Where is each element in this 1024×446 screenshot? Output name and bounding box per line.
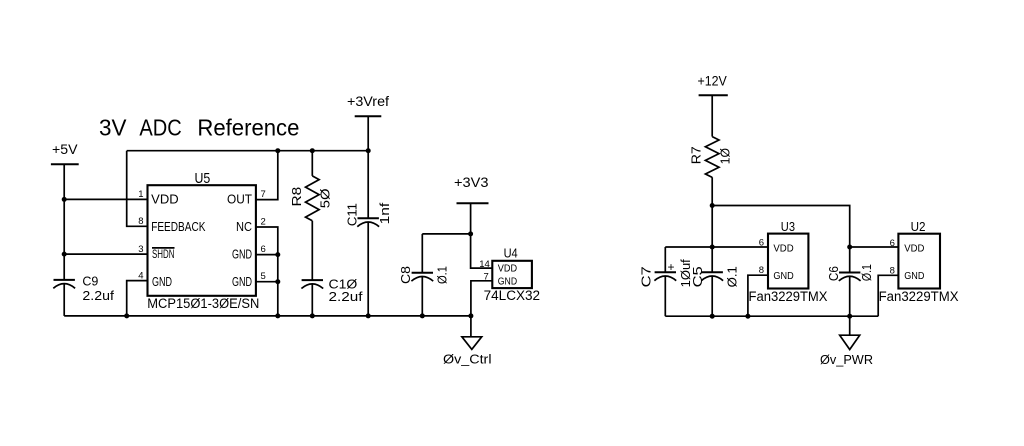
svg-text:Øv_PWR: Øv_PWR (820, 352, 873, 367)
svg-text:U4: U4 (504, 245, 518, 260)
wire R7 down (711, 177, 713, 272)
svg-text:C9: C9 (82, 274, 98, 288)
capacitor C5 (691, 266, 739, 316)
svg-text:74LCX32: 74LCX32 (484, 288, 540, 303)
svg-text:OUT: OUT (227, 193, 252, 207)
junction rail/U4 gnd (468, 313, 473, 318)
U3 value Fan3229TMX (749, 289, 828, 304)
svg-text:NC: NC (236, 220, 252, 234)
U5 pin number 2 (261, 216, 266, 227)
svg-text:+12V: +12V (698, 74, 727, 89)
junction top rail/+3Vref (366, 148, 371, 153)
junction pin6 (275, 252, 280, 257)
U4 pin label VDD (498, 262, 518, 274)
U5 pin label GND left (152, 275, 172, 289)
junction R7/branch (710, 203, 715, 208)
junction rail/C8 (420, 313, 425, 318)
svg-text:Fan3229TMX: Fan3229TMX (879, 289, 959, 304)
svg-text:1nf: 1nf (378, 202, 392, 224)
svg-text:Ø.1: Ø.1 (436, 266, 450, 284)
svg-text:2: 2 (261, 216, 266, 227)
junction rail/C11 (366, 313, 371, 318)
wire feedback (127, 151, 148, 227)
svg-text:R8: R8 (289, 187, 304, 207)
svg-text:Reference: Reference (197, 115, 299, 141)
svg-text:VDD: VDD (904, 243, 925, 255)
svg-text:VDD: VDD (773, 242, 794, 254)
svg-text:2.2uf: 2.2uf (82, 288, 114, 303)
U5 pin number 8 (138, 216, 143, 227)
svg-text:GND: GND (904, 270, 925, 282)
svg-text:C8: C8 (399, 266, 413, 284)
title 3V ADC Reference (99, 115, 299, 141)
svg-text:Fan3229TMX: Fan3229TMX (749, 289, 828, 304)
junction C7 row (710, 245, 715, 250)
power +5V (51, 142, 79, 164)
svg-text:MCP15Ø1-3ØE/SN: MCP15Ø1-3ØE/SN (147, 296, 259, 311)
svg-text:3: 3 (138, 244, 143, 255)
U5 pin number 5 (261, 271, 266, 282)
wire pin4 GND (127, 281, 148, 316)
svg-text:+: + (668, 260, 675, 274)
svg-text:3V: 3V (99, 115, 127, 141)
U4 pin label GND (498, 276, 518, 288)
svg-text:U2: U2 (911, 219, 926, 234)
U4 pin number 14 (479, 259, 490, 270)
U4 value 74LCX32 (484, 288, 540, 303)
U5 pin number 6 (261, 244, 266, 255)
svg-text:GND: GND (152, 275, 172, 289)
svg-text:GND: GND (232, 248, 252, 262)
svg-text:5Ø: 5Ø (318, 189, 333, 209)
wire top rail (127, 150, 369, 152)
wire bottom rail left (64, 315, 471, 317)
svg-text:C5: C5 (691, 266, 705, 287)
U2 value Fan3229TMX (879, 289, 959, 304)
junction +5V/SHDN (62, 252, 67, 257)
junction pin5 (275, 279, 280, 284)
junction C6/pin6 (847, 245, 852, 250)
svg-text:8: 8 (138, 216, 143, 227)
wire OUT to top rail (256, 151, 278, 200)
svg-text:+3V3: +3V3 (454, 175, 489, 190)
ground 0v_PWR (820, 316, 873, 367)
U3 pin number 8 (759, 265, 764, 276)
power +3Vref (347, 94, 389, 117)
svg-text:1: 1 (138, 189, 143, 200)
op-amp U2 body (898, 219, 940, 289)
U3 pin number 6 (759, 237, 764, 248)
svg-text:+5V: +5V (52, 142, 78, 157)
svg-text:2.2uf: 2.2uf (329, 289, 363, 304)
U5 pin number 3 (138, 244, 143, 255)
svg-text:C7: C7 (640, 266, 654, 287)
U4 pin number 7 (484, 271, 489, 282)
U3 pin label VDD (773, 242, 794, 254)
capacitor C9 (53, 274, 114, 303)
wire U2 pin6 (850, 246, 899, 248)
junction rail/NC (275, 313, 280, 318)
U5 pin number 4 (138, 270, 143, 281)
svg-text:Ø.1: Ø.1 (725, 266, 739, 287)
svg-text:+3Vref: +3Vref (347, 94, 389, 109)
power +3V3 (454, 175, 489, 204)
U5 pin label OUT (227, 193, 252, 207)
junction +5V/VDD (62, 197, 67, 202)
wire pin3 SHDN (64, 253, 147, 255)
U5 pin label FEEDBACK (151, 220, 206, 234)
U5 value MCP1501-30E/SN (147, 296, 259, 311)
wire C7 row (665, 246, 768, 248)
svg-text:C11: C11 (346, 203, 360, 226)
wire +3V3 stem to pin14 (471, 203, 493, 268)
U2 pin number 6 (890, 238, 895, 249)
svg-text:7: 7 (261, 189, 266, 200)
junction top rail/R8 (310, 148, 315, 153)
svg-text:GND: GND (232, 275, 252, 289)
svg-text:U5: U5 (195, 171, 211, 187)
capacitor C7 polarized (640, 247, 693, 316)
U5 pin label GND r4 (232, 275, 252, 289)
U3 pin label GND (773, 270, 794, 282)
power +12V (698, 74, 728, 96)
svg-text:6: 6 (261, 244, 266, 255)
junction rail/U3gnd (745, 314, 750, 319)
svg-text:GND: GND (498, 276, 518, 288)
svg-text:ADC: ADC (139, 115, 181, 141)
svg-text:GND: GND (773, 270, 794, 282)
U2 pin label GND (904, 270, 925, 282)
ground 0v_Ctrl (443, 316, 492, 367)
junction rail/C10 (310, 313, 315, 318)
svg-text:C6: C6 (827, 266, 841, 281)
U5 pin label GND r3 (232, 248, 252, 262)
junction +3V3/C8 (468, 231, 473, 236)
capacitor C8 (399, 234, 450, 316)
wire U2 GND (878, 275, 898, 316)
svg-text:R7: R7 (688, 146, 703, 164)
svg-text:1Øuf: 1Øuf (679, 259, 693, 288)
capacitor C6 (827, 264, 874, 316)
svg-text:VDD: VDD (151, 193, 179, 207)
wire U4 GND (471, 281, 492, 316)
U5 pin label VDD (151, 193, 179, 207)
wire bottom rail right (665, 315, 878, 317)
wire +5V stem lower (63, 284, 65, 316)
svg-text:FEEDBACK: FEEDBACK (151, 220, 206, 234)
op-amp U4 body (492, 245, 532, 288)
U2 pin label VDD (904, 243, 925, 255)
svg-text:6: 6 (759, 237, 764, 248)
resistor R8 (289, 151, 333, 280)
wire +3Vref stem (367, 116, 369, 218)
svg-text:SHDN: SHDN (152, 247, 175, 261)
wire +5V stem upper (63, 164, 65, 280)
wire branch to U2 col (712, 206, 850, 273)
U5 pin label SHDN (152, 247, 175, 261)
svg-text:1Ø: 1Ø (718, 148, 733, 164)
svg-text:5: 5 (261, 271, 266, 282)
wire pin5 stub (256, 281, 278, 283)
op-amp U5 body (148, 171, 256, 296)
svg-text:14: 14 (479, 259, 490, 270)
U5 pin number 7 (261, 189, 266, 200)
U2 pin number 8 (890, 266, 895, 277)
wire U3 GND (748, 275, 768, 316)
U5 pin number 1 (138, 189, 143, 200)
U5 pin label NC (236, 220, 252, 234)
junction rail/C6 (847, 314, 852, 319)
junction rail/C5 (710, 314, 715, 319)
svg-text:4: 4 (138, 270, 143, 281)
wire pin6 stub (256, 254, 278, 256)
op-amp U3 body (768, 219, 808, 288)
svg-text:VDD: VDD (498, 262, 518, 274)
junction top rail/OUT (275, 148, 280, 153)
svg-text:Øv_Ctrl: Øv_Ctrl (443, 351, 492, 366)
capacitor C11 (346, 202, 392, 316)
svg-text:U3: U3 (781, 219, 795, 234)
wire +12V stem (711, 95, 713, 136)
junction rail/pin4 (124, 313, 129, 318)
resistor R7 (688, 137, 732, 178)
svg-text:Ø.1: Ø.1 (860, 264, 874, 281)
wire to C8 (422, 233, 470, 235)
wire pin1 VDD (64, 198, 147, 200)
wire NC down to rail (256, 227, 278, 316)
capacitor C10 (301, 278, 363, 316)
